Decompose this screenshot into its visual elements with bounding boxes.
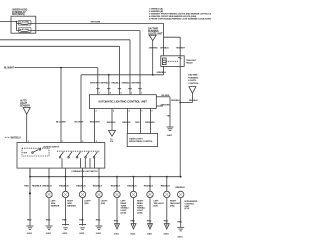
wire YEL to ground (167, 97, 172, 127)
svg-text:G201: G201 (96, 233, 102, 235)
lamp L7 column8 (144, 177, 165, 227)
wire battery feed (0, 21, 18, 31)
connector ground column6 (114, 224, 120, 236)
unit U2 dash lights brightness controller (127, 133, 157, 146)
svg-text:WHT/BLU: WHT/BLU (101, 83, 111, 85)
wire relay contact down (179, 66, 181, 176)
svg-text:RED/BLK: RED/BLK (127, 186, 137, 188)
svg-text:(21W): (21W) (121, 213, 127, 215)
lamp L3 column4 (76, 177, 91, 226)
fuse box outline (11, 16, 36, 33)
wire vertical drop W3 to pin (129, 40, 131, 95)
svg-text:8: 8 (152, 111, 153, 113)
svg-text:RED/BLK: RED/BLK (59, 186, 69, 188)
svg-text:RED: RED (46, 220, 51, 222)
svg-text:RED/BLK: RED/BLK (43, 186, 53, 188)
pin stub right 1 (156, 95, 170, 97)
svg-text:WHT/BLU: WHT/BLU (11, 137, 22, 139)
svg-text:G401: G401 (147, 232, 153, 235)
pin ticks above control unit (96, 88, 141, 90)
wire drop A to switch (60, 68, 62, 143)
ground G201 column5 (96, 226, 103, 235)
svg-text:GRN/RED: GRN/RED (149, 48, 158, 50)
svg-text:WHT/GRN: WHT/GRN (91, 22, 101, 24)
svg-text:RED/BLK: RED/BLK (32, 186, 42, 188)
svg-text:2: 2 (96, 111, 97, 113)
sensor connector auto light sensor (20, 99, 30, 142)
svg-text:LIGHTS: LIGHTS (188, 80, 196, 82)
svg-text:BRIGHTNESS CONTROL: BRIGHTNESS CONTROL (129, 141, 153, 143)
wire drop C control unit to switch (94, 108, 96, 142)
svg-text:YEL/WHT: YEL/WHT (74, 121, 84, 123)
lamp L6 column7 (127, 177, 145, 227)
ground G201 column4 (79, 225, 86, 236)
wire drop B to switch (80, 75, 82, 143)
wire junction line y75 (81, 74, 164, 76)
label taillight relay (186, 59, 197, 64)
svg-text:(2W): (2W) (101, 203, 105, 205)
svg-text:RED/BLK: RED/BLK (111, 186, 121, 188)
wire W1 fuse1 to relay feed (31, 22, 164, 24)
svg-text:DAYTIME: DAYTIME (188, 74, 198, 77)
svg-text:RED/BLK: RED/BLK (144, 186, 154, 188)
svg-text:RED/BLK: RED/BLK (107, 122, 116, 124)
svg-text:(21W): (21W) (137, 213, 143, 215)
svg-text:G301: G301 (130, 233, 136, 235)
svg-text:RED: RED (24, 186, 29, 188)
svg-text:G401: G401 (164, 232, 170, 235)
svg-text:(5W): (5W) (154, 205, 159, 207)
connector ground column7 (130, 224, 136, 236)
svg-text:RED/YEL: RED/YEL (122, 122, 131, 124)
pin stub right 2 (156, 104, 170, 106)
lamp L2 column3 (59, 177, 76, 226)
ground G201 column1 (27, 226, 34, 235)
fuse F2 No.47 (50A) (17, 28, 31, 33)
svg-text:G201: G201 (79, 233, 85, 235)
svg-text:RED/GRN: RED/GRN (145, 122, 155, 124)
underhood fuse/relay box label (12, 9, 28, 16)
bus wire (30, 176, 181, 178)
svg-text:DASH LIGHTS: DASH LIGHTS (129, 137, 143, 140)
lamp L5 column6 (111, 177, 129, 227)
legend list top right (149, 7, 218, 20)
svg-text:G401: G401 (167, 134, 173, 137)
wire relay feed corner (164, 23, 181, 55)
lamp L8 column9 (161, 177, 181, 227)
connector ground column9 (164, 224, 170, 236)
wire relay coil to junction line (163, 66, 165, 74)
wire brightness controller pin 2 (135, 108, 140, 133)
wire vertical drop W4 to pin (119, 46, 121, 94)
svg-text:YEL/RED: YEL/RED (161, 95, 170, 97)
lamp L9 column10 (176, 187, 198, 227)
svg-text:RED/BLK: RED/BLK (189, 100, 198, 102)
svg-text:G201: G201 (27, 233, 33, 235)
bus junction dots (29, 176, 182, 178)
svg-text:RED: RED (27, 220, 32, 222)
labels on switch input wires (56, 121, 100, 123)
svg-text:RED: RED (114, 220, 119, 222)
connector ground column8 (147, 224, 153, 236)
svg-text:RED: RED (62, 220, 67, 222)
svg-text:SENSOR: SENSOR (20, 104, 30, 107)
svg-text:RED: RED (178, 222, 183, 224)
svg-text:BLU/ORN: BLU/ORN (56, 121, 66, 123)
svg-text:RED/BLK: RED/BLK (161, 186, 171, 188)
svg-text:GRN/BLK: GRN/BLK (160, 48, 169, 50)
wire drop pin to control unit (108, 75, 110, 95)
wire W2 fuse2 to control unit pin (31, 30, 140, 32)
svg-text:No.41 (50A): No.41 (50A) (19, 21, 29, 24)
svg-text:G401: G401 (178, 236, 184, 239)
svg-text:GRN/BLU: GRN/BLU (122, 83, 132, 85)
svg-text:MARKER: MARKER (67, 205, 76, 208)
svg-text:CONTROL: CONTROL (188, 83, 199, 85)
svg-text:GRN/ORN: GRN/ORN (161, 104, 171, 106)
svg-text:G301: G301 (114, 233, 120, 235)
svg-text:GRN/BLK: GRN/BLK (157, 72, 167, 74)
column 1 splice wire (24, 168, 41, 226)
wire dimmer feed with connector (107, 108, 116, 143)
wire W4 (0, 45, 120, 47)
svg-text:RUNNING: RUNNING (188, 77, 198, 79)
svg-text:RED/GRN: RED/GRN (90, 121, 100, 123)
relay K1 taillight relay box (161, 56, 184, 67)
fuse F1 No.41 (50A) (17, 20, 31, 25)
ground G401 (167, 127, 174, 137)
svg-text:RED: RED (147, 220, 152, 222)
svg-text:COMBINATION LIGHT SWITCH: COMBINATION LIGHT SWITCH (71, 170, 98, 173)
svg-text:No.47 (50A): No.47 (50A) (19, 28, 29, 31)
svg-text:WHT/RED: WHT/RED (132, 83, 142, 85)
ground G201 column2 (46, 226, 53, 235)
switch outputs to bus (30, 168, 99, 177)
svg-text:RED: RED (164, 220, 169, 222)
ground G401 column10 (177, 227, 184, 238)
svg-text:RED: RED (135, 122, 140, 124)
switch S1 combination light switch box (17, 143, 105, 169)
pin numbers above control unit (99, 92, 143, 94)
svg-text:RED: RED (96, 220, 101, 222)
svg-text:RED/BLK: RED/BLK (176, 187, 186, 189)
svg-text:RELAY: RELAY (186, 61, 193, 64)
svg-text:G201: G201 (46, 233, 52, 235)
svg-text:RED/BLK: RED/BLK (112, 83, 121, 85)
svg-text:(ICU): (ICU) (185, 208, 190, 210)
svg-text:BLU/WHT: BLU/WHT (4, 68, 15, 70)
svg-text:RED/BLK: RED/BLK (171, 100, 180, 102)
connector C1 daytime running lights control unit label (148, 27, 163, 75)
svg-text:AUTOMATIC LIGHTING CONTROL UNI: AUTOMATIC LIGHTING CONTROL UNIT (98, 100, 147, 104)
label WHT/BLU with leader (5, 137, 21, 139)
svg-text:RED/WHT: RED/WHT (176, 48, 186, 50)
svg-text:RED/BLK: RED/BLK (93, 186, 103, 188)
lamp L4 column5 (93, 177, 108, 226)
svg-text:(5W): (5W) (170, 205, 175, 207)
svg-text:9: 9 (141, 111, 142, 113)
connector C2 daytime running lights control unit (179, 74, 199, 104)
svg-text:MARKER: MARKER (51, 205, 60, 208)
pin numbers switch box entries (28, 141, 97, 143)
switch levers (57, 151, 100, 168)
pin bumps under control unit (96, 110, 153, 113)
svg-text:RED/BLK: RED/BLK (76, 186, 86, 188)
wire W3 (0, 39, 130, 41)
wire brightness controller pin 1 (122, 108, 131, 133)
wire vertical drop W2 to pin (139, 31, 141, 95)
svg-text:G201: G201 (62, 233, 68, 235)
svg-text:WHT/GRN: WHT/GRN (90, 83, 100, 85)
ground G201 column3 (62, 225, 69, 236)
wire brightness controller pin 3 (145, 108, 155, 133)
svg-text:(2W): (2W) (84, 203, 88, 205)
wire BLU/WHT line y68 (4, 67, 98, 95)
labels above control unit (90, 83, 141, 85)
svg-text:RED: RED (79, 220, 84, 222)
lamp L1 column2 (43, 177, 60, 226)
svg-text:6: 6 (113, 111, 114, 113)
svg-text:5 FRONT TURN SIGNAL/PARKING L: 5 FRONT TURN SIGNAL/PARKING LIGHT ASSEMB… (149, 17, 211, 20)
svg-text:BOX (MAIN): BOX (MAIN) (12, 13, 25, 16)
svg-text:RED: RED (130, 220, 135, 222)
control unit U1 automatic lighting control unit (89, 95, 156, 109)
